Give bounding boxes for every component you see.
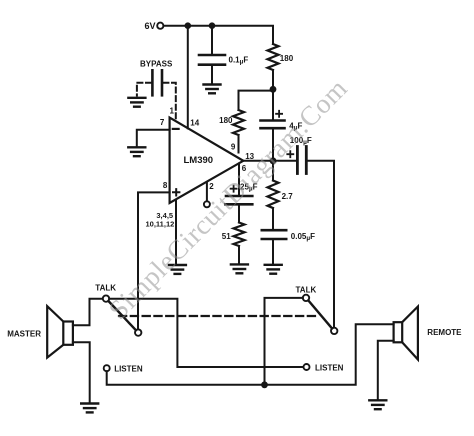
ground (master speaker) xyxy=(81,404,98,413)
pins 3,4,5,10,11,12 label xyxy=(146,211,175,229)
capacitor C 0.1uF xyxy=(199,55,248,66)
svg-text:8: 8 xyxy=(163,181,168,190)
resistor R 51 xyxy=(222,223,245,247)
switch S1 talk (left) xyxy=(95,284,141,336)
ground (bypass) xyxy=(128,98,145,107)
wire supply rail xyxy=(164,26,273,44)
capacitor C 4uF xyxy=(261,111,303,132)
ground (0.1uF) xyxy=(204,85,221,94)
wire 0.1uF from rail xyxy=(211,26,213,54)
speaker SPK master xyxy=(7,306,73,357)
capacitor C 100uF xyxy=(287,136,312,174)
capacitor C bypass (dashed option) xyxy=(140,60,173,96)
junction node B xyxy=(270,86,277,93)
wire pin 6 to 25uF xyxy=(238,163,240,194)
ground (remote speaker) xyxy=(369,400,386,409)
node listen terminal (right) xyxy=(304,364,344,373)
wire 2.7 to 0.05uF xyxy=(272,208,274,229)
wire pin 8 to left talk contact xyxy=(138,192,170,329)
wire 0.1uF to ground xyxy=(211,66,213,84)
ground (0.05uF) xyxy=(265,265,282,274)
wire right talk pole to listen junction xyxy=(265,298,303,385)
wire master speaker top to talk pole xyxy=(73,299,103,326)
node pin 2 open terminal xyxy=(204,201,210,207)
junction listen line xyxy=(261,381,268,388)
resistor R 2.7 xyxy=(268,181,294,209)
capacitor C 0.05uF xyxy=(262,230,315,242)
svg-text:1: 1 xyxy=(170,107,175,116)
wire 100uF to right talk contact xyxy=(308,161,334,328)
svg-text:0.1µF: 0.1µF xyxy=(229,56,249,66)
wire dashed bypass to pin 1 xyxy=(163,83,175,121)
ground (R51) xyxy=(231,264,248,273)
resistor R 180 (supply) xyxy=(268,44,294,70)
svg-text:9: 9 xyxy=(231,143,236,152)
ground (op-amp pins) xyxy=(169,265,186,274)
wire pin 14 to rail xyxy=(187,26,189,129)
junction output node xyxy=(270,157,277,164)
wire left talk pole to right listen xyxy=(109,299,303,367)
wire node B to 4uF xyxy=(272,89,274,119)
wire pin 2 stub xyxy=(206,183,208,201)
svg-text:0.05µF: 0.05µF xyxy=(291,232,315,242)
node listen terminal (left) xyxy=(104,365,143,374)
wire pin 7 to ground xyxy=(137,130,170,147)
wire left listen to remote speaker xyxy=(107,324,394,385)
svg-text:LISTEN: LISTEN xyxy=(315,364,344,373)
svg-text:180: 180 xyxy=(280,54,294,63)
svg-text:MASTER: MASTER xyxy=(7,329,41,338)
ground (pin 7) xyxy=(128,147,145,156)
wire 25uF to R51 xyxy=(238,206,240,223)
wire master speaker bottom to ground xyxy=(73,342,90,403)
capacitor C 25uF xyxy=(225,183,257,205)
wire output node to 2.7 xyxy=(272,161,274,181)
svg-text:BYPASS: BYPASS xyxy=(140,60,173,69)
junction 0.1uF-rail xyxy=(209,22,216,29)
wire feedback resistor to pin 9 xyxy=(238,135,240,153)
svg-text:6V: 6V xyxy=(144,21,155,31)
wire ganged switch coupling (dashed) xyxy=(119,315,316,317)
op-amp U1 LM390 xyxy=(170,118,244,204)
wire remote speaker bottom to ground xyxy=(378,341,394,400)
wire R180 to node B xyxy=(272,70,274,89)
svg-text:180: 180 xyxy=(219,116,233,125)
wire dashed bypass to ground xyxy=(137,83,151,96)
svg-text:10,11,12: 10,11,12 xyxy=(146,220,175,229)
svg-text:14: 14 xyxy=(190,119,199,128)
wire 4uF to output node xyxy=(272,129,274,160)
wire feedback from node B xyxy=(239,91,274,110)
speaker SPK remote xyxy=(394,307,463,360)
switch S2 talk (right) xyxy=(296,286,338,335)
wire output node pin 13 xyxy=(243,160,297,162)
svg-text:TALK: TALK xyxy=(296,286,317,295)
resistor R 180 (feedback) xyxy=(219,110,244,135)
svg-text:REMOTE: REMOTE xyxy=(427,328,462,337)
wire R51 to ground xyxy=(238,246,240,264)
junction pin14-rail xyxy=(185,22,192,29)
svg-text:2.7: 2.7 xyxy=(282,192,294,201)
wire pins 3,4,5,10,11,12 to ground xyxy=(175,200,177,265)
svg-text:7: 7 xyxy=(160,118,165,127)
wire 0.05uF to ground xyxy=(272,240,274,264)
svg-text:LISTEN: LISTEN xyxy=(114,365,143,374)
svg-text:51: 51 xyxy=(222,232,231,241)
node 6V supply terminal xyxy=(144,21,163,31)
svg-text:LM390: LM390 xyxy=(184,155,214,166)
